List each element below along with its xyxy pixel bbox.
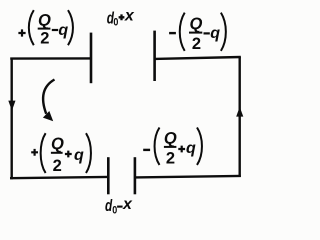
svg-text:Q: Q — [164, 129, 177, 147]
svg-text:0: 0 — [113, 16, 118, 28]
label top-right charge -(Q/2-q) — [169, 13, 226, 53]
wire left vertical — [10, 58, 12, 180]
capacitor C1 left plate — [90, 33, 93, 84]
svg-text:2: 2 — [53, 157, 62, 175]
current arrow left (down) — [8, 101, 15, 111]
svg-text:2: 2 — [166, 149, 175, 167]
svg-text:Q: Q — [190, 15, 203, 33]
svg-text:Q: Q — [51, 135, 64, 153]
svg-text:x: x — [122, 196, 133, 213]
svg-text:2: 2 — [192, 35, 201, 53]
wire top-left segment — [10, 57, 91, 60]
capacitor C2 left plate — [107, 157, 110, 194]
label plate separation d0+x — [107, 7, 135, 28]
svg-text:0: 0 — [112, 205, 117, 217]
svg-text:q: q — [186, 140, 196, 157]
capacitor C1 right plate — [153, 31, 156, 81]
svg-text:Q: Q — [38, 11, 51, 29]
svg-text:q: q — [58, 22, 68, 39]
wire bottom-left segment — [10, 177, 108, 178]
charge-flow curved arrow — [43, 80, 55, 122]
svg-text:q: q — [210, 25, 220, 42]
label bottom-left charge +(Q/2+q) — [31, 133, 91, 175]
wire bottom-right segment — [135, 176, 241, 178]
current arrow right (up) — [236, 107, 243, 117]
wire right vertical — [238, 57, 240, 177]
label bottom-right charge -(Q/2+q) — [143, 128, 202, 168]
svg-text:x: x — [124, 7, 135, 24]
label top-left charge +(Q/2-q) — [18, 10, 73, 48]
svg-text:q: q — [74, 147, 84, 164]
label plate separation d0-x — [105, 196, 133, 216]
capacitor C2 right plate — [134, 157, 137, 194]
svg-text:2: 2 — [40, 30, 49, 48]
wire top-right segment — [155, 57, 241, 59]
